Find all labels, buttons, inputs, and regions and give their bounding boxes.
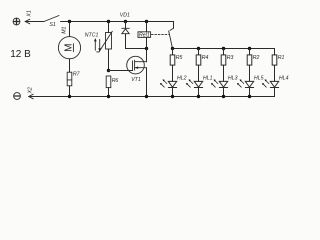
node dot rail col4 (248, 47, 251, 50)
LED HL3 (211, 79, 228, 87)
svg-text:HL4: HL4 (279, 75, 289, 81)
branch column 1 (160, 49, 187, 99)
svg-text:R7: R7 (73, 72, 81, 78)
svg-text:HL1: HL1 (203, 75, 213, 81)
wire motor to R7 (69, 59, 71, 72)
node dot relay branch (145, 20, 148, 23)
node dot bottom col2 (197, 95, 200, 98)
wire LED HL5 to bottom rail (249, 88, 251, 97)
wire NTC to gate node (108, 49, 110, 71)
svg-text:NTC1: NTC1 (85, 32, 99, 38)
wire arrow into X1 (25, 19, 30, 24)
node dot bottom motor (68, 95, 71, 98)
svg-text:S1: S1 (49, 22, 55, 28)
svg-text:R5: R5 (176, 55, 183, 61)
wire source to bottom rail (146, 68, 148, 97)
wire R5 to LED (172, 65, 174, 81)
wire relay coil bottom (146, 37, 148, 48)
wire R4 to LED (198, 65, 200, 81)
node dot rail col3 (222, 47, 225, 50)
LED HL5 (237, 79, 254, 87)
wire VD1 top (125, 22, 127, 29)
node dot bottom col4 (248, 95, 251, 98)
svg-text:M: M (64, 44, 75, 52)
wire top rail left segment (25, 21, 44, 23)
wire top rail right segment and corner to contact (61, 22, 174, 29)
node dot VD1 branch (124, 20, 127, 23)
svg-text:R3: R3 (227, 55, 234, 61)
wire R3 to LED (223, 65, 225, 81)
terminal X1 (13, 18, 20, 25)
resistor R1 (272, 55, 277, 65)
wire motor branch top (69, 22, 71, 37)
branch column 2 (186, 49, 213, 99)
resistor R5 (170, 55, 175, 65)
relay actuation dashed link (151, 33, 168, 35)
LED HL2 (160, 79, 177, 87)
wire LED HL4 to bottom rail (274, 88, 276, 97)
svg-text:HL3: HL3 (228, 75, 238, 81)
wire LED HL3 to bottom rail (223, 88, 225, 97)
thermistor NTC1 (97, 31, 113, 52)
svg-text:HL5: HL5 (254, 75, 264, 81)
airflow arrow down (98, 39, 101, 51)
switch S1 blade (44, 16, 59, 22)
wire drain riser (146, 49, 148, 62)
svg-text:R2: R2 (253, 55, 260, 61)
relay coil Rel1 (138, 32, 151, 38)
wire LED HL1 to bottom rail (198, 88, 200, 97)
node dot rail col2 (197, 47, 200, 50)
airflow arrow up (94, 38, 97, 50)
resistor R3 (221, 55, 226, 65)
svg-text:Rel1: Rel1 (139, 32, 150, 38)
LED HL1 (186, 79, 203, 87)
resistor R2 (247, 55, 252, 65)
branch column 4 (237, 49, 264, 99)
transistor VT1 (127, 56, 147, 74)
wire R1 to LED (274, 65, 276, 81)
node dot NTC branch (107, 20, 110, 23)
wire R2 to LED (249, 65, 251, 81)
svg-text:X2: X2 (28, 87, 34, 94)
relay contact blade (169, 31, 173, 49)
svg-text:VD1: VD1 (120, 12, 130, 18)
node dot coil bottom (145, 47, 148, 50)
wire R6 to bottom rail (108, 88, 110, 97)
motor M1 (58, 37, 80, 59)
resistor R7 (67, 72, 72, 86)
svg-text:R6: R6 (112, 78, 119, 84)
wire relay coil top (146, 22, 148, 32)
svg-text:12 В: 12 В (10, 49, 31, 60)
resistor R6 (106, 76, 111, 88)
wire LED feed rail (173, 49, 275, 55)
wire stub R5 (172, 49, 174, 55)
node dot bottom source (145, 95, 148, 98)
wire arrow into X2 (29, 94, 34, 99)
svg-text:R1: R1 (278, 55, 285, 61)
svg-text:M1: M1 (62, 26, 68, 33)
node dot bottom col3 (222, 95, 225, 98)
svg-text:HL2: HL2 (177, 75, 187, 81)
svg-text:R4: R4 (202, 55, 209, 61)
node gate junction (107, 69, 110, 72)
node dot rail col1 (171, 47, 174, 50)
branch column 3 (211, 49, 238, 99)
branch column 5 (262, 55, 289, 97)
wire LED HL2 to bottom rail (172, 88, 174, 97)
terminal X2 (14, 93, 21, 100)
wire stub R3 (223, 49, 225, 55)
wire gate (109, 70, 133, 72)
node dot bottom col1 (171, 95, 174, 98)
relay contact tick (170, 28, 174, 30)
resistor R4 (196, 55, 201, 65)
wire R7 to bottom rail (69, 86, 71, 97)
wire stub R4 (198, 49, 200, 55)
wire stub R2 (249, 49, 251, 55)
node dot bottom R6 (107, 95, 110, 98)
diode VD1 (122, 28, 130, 33)
wire NTC branch top (108, 22, 110, 33)
wire VD1 bottom to coil node (126, 34, 147, 49)
LED HL4 (262, 79, 279, 87)
svg-text:VT1: VT1 (131, 77, 141, 83)
svg-text:X1: X1 (26, 10, 32, 17)
wire bottom rail (29, 96, 275, 98)
node dot motor branch (68, 20, 71, 23)
